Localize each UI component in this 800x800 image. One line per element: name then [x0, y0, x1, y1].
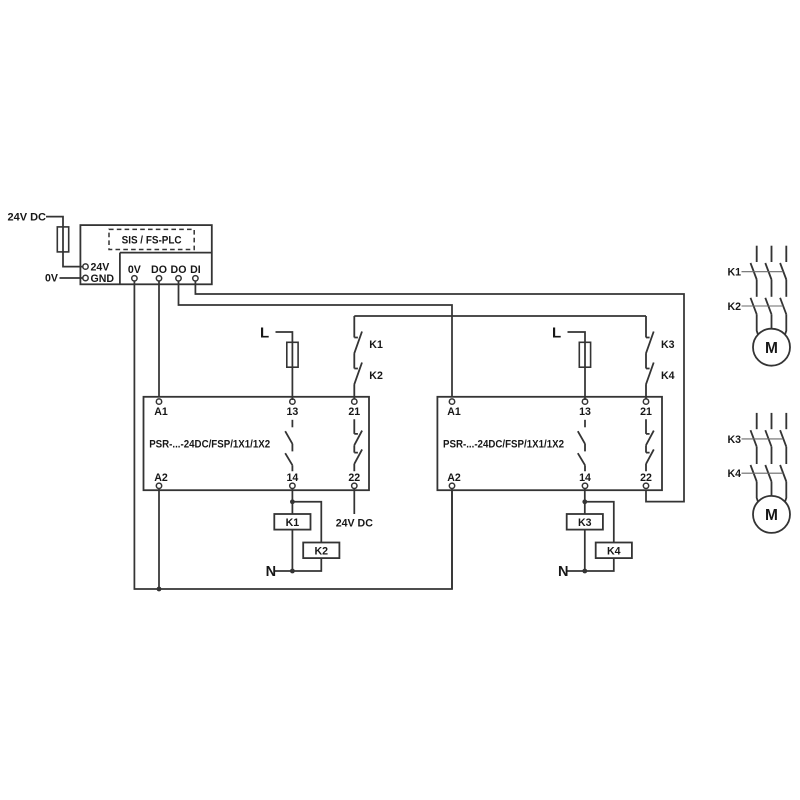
svg-text:K2: K2: [369, 370, 383, 382]
svg-text:21: 21: [348, 406, 360, 418]
svg-text:13: 13: [579, 406, 591, 418]
svg-text:24V DC: 24V DC: [336, 518, 373, 530]
svg-text:13: 13: [287, 406, 299, 418]
svg-text:K1: K1: [369, 339, 383, 351]
svg-text:L: L: [552, 324, 561, 341]
svg-text:K1: K1: [286, 517, 300, 529]
svg-text:K3: K3: [578, 517, 592, 529]
svg-text:DO: DO: [171, 264, 187, 276]
svg-text:K4: K4: [728, 468, 742, 480]
svg-text:0V: 0V: [128, 264, 141, 276]
svg-text:L: L: [260, 324, 269, 341]
svg-text:K1: K1: [728, 267, 742, 279]
svg-text:GND: GND: [91, 273, 115, 285]
svg-text:M: M: [765, 340, 778, 357]
svg-text:K4: K4: [607, 546, 621, 558]
svg-text:K2: K2: [315, 546, 329, 558]
svg-text:SIS / FS-PLC: SIS / FS-PLC: [122, 235, 182, 247]
svg-text:N: N: [266, 564, 276, 580]
svg-text:24V DC: 24V DC: [7, 212, 46, 224]
svg-text:K2: K2: [728, 301, 742, 313]
svg-text:A1: A1: [154, 406, 168, 418]
svg-text:A2: A2: [154, 472, 168, 484]
svg-text:PSR-...-24DC/FSP/1X1/1X2: PSR-...-24DC/FSP/1X1/1X2: [443, 438, 564, 450]
svg-text:0V: 0V: [45, 272, 58, 284]
svg-text:A1: A1: [447, 406, 461, 418]
svg-text:N: N: [558, 564, 568, 580]
svg-text:M: M: [765, 507, 778, 524]
svg-text:K4: K4: [661, 370, 675, 382]
svg-text:21: 21: [640, 406, 652, 418]
svg-text:DI: DI: [190, 264, 201, 276]
svg-text:K3: K3: [661, 339, 675, 351]
svg-text:K3: K3: [728, 434, 742, 446]
svg-text:24V: 24V: [91, 261, 110, 273]
svg-text:DO: DO: [151, 264, 167, 276]
svg-text:A2: A2: [447, 472, 461, 484]
svg-text:PSR-...-24DC/FSP/1X1/1X2: PSR-...-24DC/FSP/1X1/1X2: [149, 438, 270, 450]
